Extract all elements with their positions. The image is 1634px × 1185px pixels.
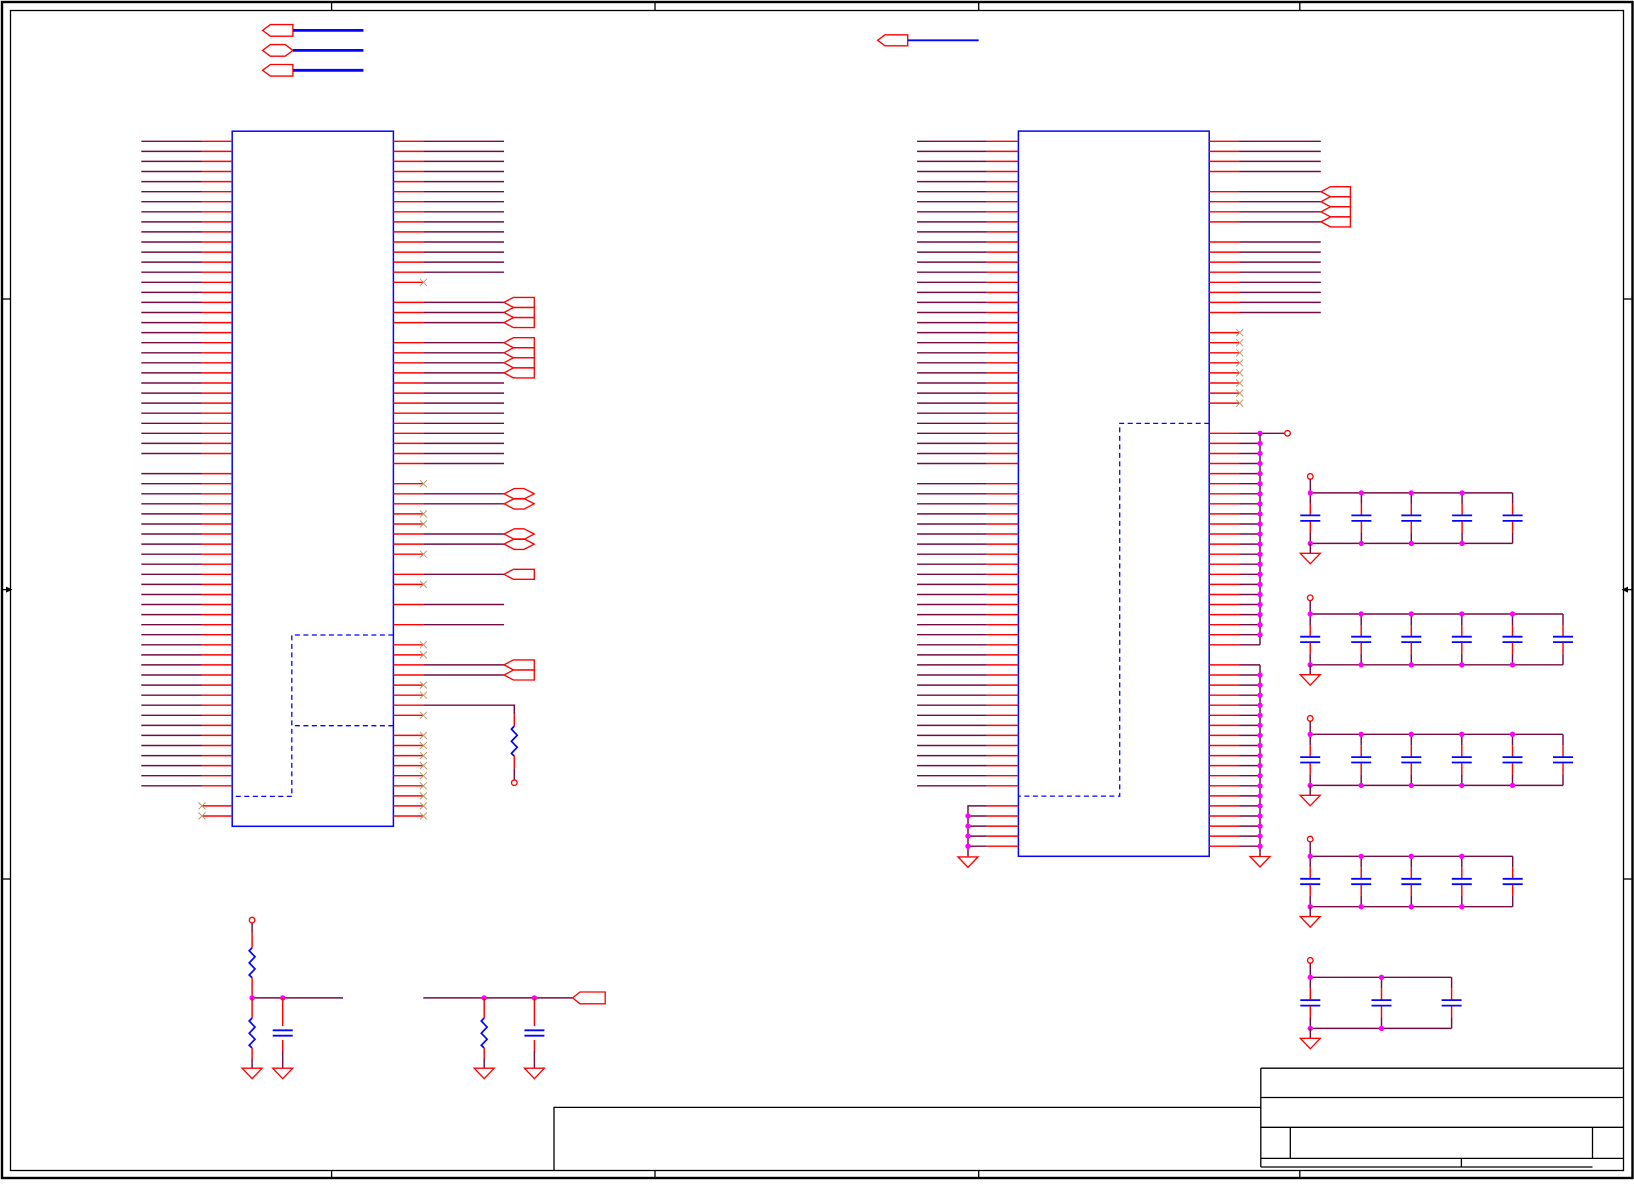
resistor R3 lead top: [251, 998, 253, 1018]
U2 right pin row k36: [1209, 503, 1239, 505]
U1 left pin row k47: [202, 614, 233, 616]
wire: [1240, 765, 1261, 767]
net flag A1 (output, top-left): [263, 25, 293, 37]
wire: [423, 422, 504, 424]
wire: [423, 573, 504, 575]
wire: [141, 241, 201, 243]
wire: [423, 543, 504, 545]
junction: [1359, 662, 1364, 667]
wire: [1240, 140, 1321, 142]
wire: [917, 694, 987, 696]
wire: [141, 140, 201, 142]
wire: [251, 1059, 253, 1069]
wire: [1240, 261, 1321, 263]
wire: [917, 604, 987, 606]
bus wire A1: [293, 29, 363, 32]
capacitor C52: [1381, 977, 1383, 988]
wire: [141, 322, 201, 324]
wire: [1240, 724, 1261, 726]
junction: [1257, 813, 1262, 818]
U2 right pin row k61: [1209, 755, 1239, 757]
U2 left pin row k16: [987, 301, 1019, 303]
wire: [1309, 721, 1311, 734]
U1 right pin k34 no-connect: [393, 483, 423, 485]
resistor R2 lead top: [251, 933, 253, 948]
junction: [1257, 592, 1262, 597]
junction: [1257, 481, 1262, 486]
U2 right pin row k68: [1209, 825, 1239, 827]
U1 left pin row k49: [202, 634, 233, 636]
U1 right pin k57 no-connect: [393, 714, 423, 716]
wire: [1240, 634, 1261, 636]
wire: [1240, 614, 1261, 616]
junction: [1257, 682, 1262, 687]
wire: [141, 745, 201, 747]
U1 right pin row k6: [393, 201, 423, 203]
ground symbol (U2 right bus): [1250, 857, 1270, 868]
title block row line 3: [1261, 1157, 1624, 1159]
U1 left pin row k63: [202, 775, 233, 777]
wire: [141, 604, 201, 606]
wire: [917, 765, 987, 767]
wire: [917, 573, 987, 575]
IC U2 section boundary (dashed): [1018, 423, 1209, 796]
U2 left pin row k15: [987, 291, 1019, 293]
capacitor C13: [1410, 493, 1412, 504]
junction: [1459, 854, 1464, 859]
net flag A2 (bidirectional, top-left): [263, 45, 293, 57]
junction: [1308, 541, 1313, 546]
wire: [968, 845, 987, 847]
wire: [917, 241, 987, 243]
capacitor C12: [1360, 493, 1362, 504]
wire: [917, 745, 987, 747]
U2 right pin row k32: [1209, 463, 1239, 465]
IC U2 body (right large IC): [1018, 131, 1209, 856]
wire: [141, 201, 201, 203]
resistor R4 lead top: [483, 998, 485, 1018]
wire: [917, 543, 987, 545]
wire: [917, 453, 987, 455]
wire: [1240, 845, 1261, 847]
U2 left pin row k29: [987, 432, 1019, 434]
U1 right pin row k28: [393, 422, 423, 424]
U2 right pin row k57: [1209, 714, 1239, 716]
wire: [141, 583, 201, 585]
junction: [1257, 773, 1262, 778]
junction: [1257, 823, 1262, 828]
capacitor C21: [1309, 614, 1311, 625]
wire: [1240, 473, 1261, 475]
RC network 1 supply terminal (open circle): [249, 917, 255, 923]
U2 left pin row k57: [987, 714, 1019, 716]
wire: [917, 583, 987, 585]
U2 left pin row k12: [987, 261, 1019, 263]
ground symbol (U2 left power group): [958, 857, 978, 868]
U2 left pin row k59: [987, 734, 1019, 736]
U2 right pin k23 no-connect: [1209, 372, 1239, 374]
U1 left pin row k21: [202, 352, 233, 354]
zone tick right 2: [1624, 878, 1633, 880]
wire: [141, 352, 201, 354]
U1 left pin row k36: [202, 503, 233, 505]
junction: [1257, 783, 1262, 788]
wire: [917, 412, 987, 414]
wire: [141, 614, 201, 616]
U2 right pin row k33: [1209, 473, 1239, 475]
capacitor C22: [1360, 614, 1362, 625]
U2 right pin row k43: [1209, 573, 1239, 575]
capacitor C61: [273, 1029, 293, 1031]
junction: [1257, 562, 1262, 567]
U1 left pin row k59: [202, 734, 233, 736]
wire: [917, 785, 987, 787]
wire: [1309, 601, 1311, 614]
U1 left pin row k37: [202, 513, 233, 515]
junction: [1459, 783, 1464, 788]
capacitor C45: [1512, 856, 1514, 867]
wire: [423, 261, 504, 263]
junction: [1459, 611, 1464, 616]
wire: [1240, 513, 1261, 515]
junction: [1359, 854, 1364, 859]
cap bank 5 ground stub: [1309, 1028, 1311, 1038]
wire: [1240, 483, 1261, 485]
junction: [1459, 490, 1464, 495]
capacitor C33: [1410, 734, 1412, 745]
U2 right pin row k60: [1209, 745, 1239, 747]
U1 left pin row k17: [202, 312, 233, 314]
wire: [423, 352, 504, 354]
ground symbol (cap bank 3): [1300, 795, 1320, 806]
net flag (output) row k53: [504, 670, 534, 680]
wire: [1240, 594, 1261, 596]
U1 left pin row k50: [202, 644, 233, 646]
wire: [141, 714, 201, 716]
wire: [141, 503, 201, 505]
junction: [1308, 904, 1313, 909]
U1 right pin row k31: [393, 453, 423, 455]
U1 left pin row k52: [202, 664, 233, 666]
U2 left pin row k36: [987, 503, 1019, 505]
U2 right pin row k29 (bus1 top): [1209, 432, 1239, 434]
wire: [423, 392, 504, 394]
U2 right pin row k48: [1209, 624, 1239, 626]
U1 left pin row k11: [202, 251, 233, 253]
wire: [423, 271, 504, 273]
U1 right pin k65 no-connect: [393, 795, 423, 797]
wire: [141, 332, 201, 334]
U2 right pin row k49: [1209, 634, 1239, 636]
cap bank 2 supply terminal (open circle): [1307, 595, 1313, 601]
cap bank 2 bottom rail wire: [1310, 664, 1563, 666]
U2 left pin row k43: [987, 573, 1019, 575]
junction: [1257, 693, 1262, 698]
zone tick bottom 4: [1299, 1171, 1301, 1179]
U1 left pin row k41: [202, 553, 233, 555]
wire: [423, 150, 504, 152]
ground symbol (cap bank 1): [1300, 553, 1320, 564]
U2 right pin row k15: [1209, 291, 1239, 293]
wire: [141, 422, 201, 424]
U2 left pin row k3: [987, 171, 1019, 173]
U2 left pin row k32: [987, 463, 1019, 465]
wire: [423, 624, 504, 626]
resistor R4: [481, 1018, 487, 1048]
U1 left pin row k20: [202, 342, 233, 344]
wire: [1240, 563, 1261, 565]
U1 right pin k37 no-connect: [393, 513, 423, 515]
U2 right pin k21 no-connect: [1209, 352, 1239, 354]
wire: [141, 664, 201, 666]
wire: [141, 291, 201, 293]
junction: [1459, 732, 1464, 737]
U1 left pin row k30: [202, 442, 233, 444]
U2 right pin row k35: [1209, 493, 1239, 495]
wire: [141, 221, 201, 223]
wire: [1240, 583, 1261, 585]
junction: [965, 833, 970, 838]
U2 right pin row k50 (bus1 bottom corner): [1209, 644, 1239, 646]
net flag B1 (output, top-center): [878, 35, 908, 46]
U2 right pin row k13: [1209, 271, 1239, 273]
junction: [1257, 703, 1262, 708]
U1 right pin k51 no-connect: [393, 654, 423, 656]
cap bank 5 supply terminal (open circle): [1308, 958, 1314, 964]
wire: [917, 503, 987, 505]
capacitor C34: [1461, 734, 1463, 745]
cap bank 5 top rail wire: [1310, 976, 1451, 978]
junction: [1379, 975, 1384, 980]
wire: [141, 553, 201, 555]
U1 left pin row k35: [202, 493, 233, 495]
wire: [141, 563, 201, 565]
wire: [917, 150, 987, 152]
U1 left pin row k48: [202, 624, 233, 626]
junction: [1257, 743, 1262, 748]
wire: [141, 755, 201, 757]
ground symbol (cap bank 2): [1300, 675, 1320, 686]
wire: [1240, 211, 1322, 213]
ground symbol (R4): [474, 1068, 494, 1079]
junction: [1409, 854, 1414, 859]
U2 left pin row k62: [987, 765, 1019, 767]
U1 right pin row k25: [393, 392, 423, 394]
U1 right pin k44 no-connect: [393, 583, 423, 585]
ground symbol (cap bank 4): [1300, 917, 1320, 928]
cap bank 1 supply terminal (open circle): [1308, 474, 1314, 480]
wire: [917, 342, 987, 344]
wire: [917, 160, 987, 162]
U1 right pin row k21 to flag: [393, 352, 423, 354]
capacitor C42: [1360, 856, 1362, 867]
junction: [1510, 783, 1515, 788]
U1 left pin row k43: [202, 573, 233, 575]
U2 left pin row k39: [987, 533, 1019, 535]
junction: [1409, 732, 1414, 737]
wire: [917, 704, 987, 706]
cap bank 1 top rail wire: [1310, 492, 1512, 494]
U2 left pin row k11: [987, 251, 1019, 253]
junction: [532, 995, 537, 1000]
wire: [917, 523, 987, 525]
resistor R3 lead bottom: [251, 1048, 253, 1059]
U2 right pin row k41: [1209, 553, 1239, 555]
U2 left pin row k8: [987, 221, 1019, 223]
U2 left pin row k51: [987, 654, 1019, 656]
net flag (bidir) row k39: [504, 529, 534, 540]
wire: [141, 694, 201, 696]
U2 right pin row k2: [1209, 160, 1239, 162]
title block frame: [1261, 1067, 1624, 1069]
wire: [917, 322, 987, 324]
U1 left pin row k56: [202, 704, 233, 706]
wire: [141, 231, 201, 233]
wire: [423, 171, 504, 173]
wire: [1240, 543, 1261, 545]
wire: [141, 543, 201, 545]
net flag (output) row k23: [504, 368, 534, 378]
wire: [917, 231, 987, 233]
wire: [423, 221, 504, 223]
U1 left pin row k16: [202, 301, 233, 303]
wire: [917, 332, 987, 334]
junction: [1257, 793, 1262, 798]
junction: [1308, 611, 1313, 616]
zone tick left 1: [2, 298, 11, 300]
wire: [1240, 684, 1261, 686]
U1 left pin row k28: [202, 422, 233, 424]
junction: [1409, 611, 1414, 616]
wire: [968, 835, 987, 837]
U2 right pin row k17: [1209, 312, 1239, 314]
wire: [141, 301, 201, 303]
IC U1 section boundary (dashed): [232, 635, 393, 796]
wire: [1240, 553, 1261, 555]
U2 right pin row k3: [1209, 171, 1239, 173]
wire: [423, 201, 504, 203]
wire: [1240, 291, 1321, 293]
wire: [423, 372, 504, 374]
U2 right pin row k63: [1209, 775, 1239, 777]
wire: [917, 513, 987, 515]
vertical bus wire 1: [1259, 433, 1261, 645]
U1 left pin row k6: [202, 201, 233, 203]
U2 right pin row k46: [1209, 604, 1239, 606]
U2 left pin row k25: [987, 392, 1019, 394]
ground symbol (R3): [242, 1068, 262, 1079]
U2 left pin row k27: [987, 412, 1019, 414]
wire: [141, 624, 201, 626]
U2 right pin row k59: [1209, 734, 1239, 736]
junction: [1257, 723, 1262, 728]
U2 left pin row k66 (power group): [987, 805, 1019, 807]
center arrow right border: [1627, 589, 1633, 591]
U1 right pin row k30: [393, 442, 423, 444]
U2 left pin row k49: [987, 634, 1019, 636]
cap bank 3 supply terminal (open circle): [1307, 716, 1313, 722]
U2 right pin row k10: [1209, 241, 1239, 243]
U1 right pin row k39 to flag: [393, 533, 423, 535]
wire: [917, 724, 987, 726]
wire: [1240, 785, 1261, 787]
cap bank 2 top rail wire: [1310, 613, 1563, 615]
zone tick top 1: [331, 2, 333, 11]
U1 left pin row k9: [202, 231, 233, 233]
wire: [917, 432, 987, 434]
U1 left pin row k26: [202, 402, 233, 404]
wire: [917, 382, 987, 384]
wire: [141, 412, 201, 414]
junction: [1257, 541, 1262, 546]
U1 right pin row k18 to flag: [393, 322, 423, 324]
capacitor C61 lead bottom: [282, 1040, 284, 1051]
U2 right pin row k40: [1209, 543, 1239, 545]
wire: [1240, 442, 1261, 444]
wire: [1240, 644, 1261, 646]
U1 right pin row k27: [393, 412, 423, 414]
wire: [282, 1051, 284, 1068]
wire: [917, 392, 987, 394]
capacitor C31: [1309, 734, 1311, 745]
wire: [141, 594, 201, 596]
junction: [1379, 1026, 1384, 1031]
U1 right pin row k4: [393, 181, 423, 183]
U2 right pin row k11: [1209, 251, 1239, 253]
wire: [141, 684, 201, 686]
U2 right pin row k14: [1209, 281, 1239, 283]
U2 right pin row k42: [1209, 563, 1239, 565]
junction: [1308, 662, 1313, 667]
U2 left pin row k4: [987, 181, 1019, 183]
U2 right pin row k56: [1209, 704, 1239, 706]
capacitor C24: [1461, 614, 1463, 625]
wire: [917, 201, 987, 203]
U1 left pin row k14: [202, 281, 233, 283]
wire: [917, 291, 987, 293]
wire: [423, 432, 504, 434]
U1 right pin k67 no-connect: [393, 815, 423, 817]
U1 right pin k50 no-connect: [393, 644, 423, 646]
U2 right pin row k66: [1209, 805, 1239, 807]
U2 right pin row k62: [1209, 765, 1239, 767]
junction: [1257, 833, 1262, 838]
IC U1 body (left large IC): [232, 131, 393, 826]
node wire RC2: [423, 997, 572, 999]
U2 right pin row k55: [1209, 694, 1239, 696]
U1 right pin k62 no-connect: [393, 765, 423, 767]
U2 left pin row k28: [987, 422, 1019, 424]
wire: [141, 171, 201, 173]
wire: [917, 674, 987, 676]
junction: [1459, 541, 1464, 546]
wire to resistor R1: [423, 705, 514, 714]
wire: [423, 251, 504, 253]
U2 left pin row k41: [987, 553, 1019, 555]
wire: [1240, 815, 1261, 817]
U1 right pin k66 no-connect: [393, 805, 423, 807]
wire: [141, 483, 201, 485]
wire: [917, 442, 987, 444]
U1 right pin k41 no-connect: [393, 553, 423, 555]
U2 left pin row k40: [987, 543, 1019, 545]
wire: [1240, 664, 1261, 666]
U1 left pin row k40: [202, 543, 233, 545]
U2 right pin k24 no-connect: [1209, 382, 1239, 384]
junction: [1308, 783, 1313, 788]
wire: [141, 513, 201, 515]
wire: [917, 281, 987, 283]
